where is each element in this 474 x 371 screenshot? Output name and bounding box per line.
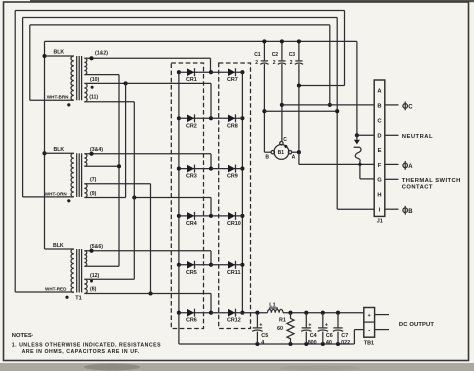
label NEUTRAL [402, 134, 433, 140]
label BLK (section 3) [53, 243, 64, 249]
label BLK (section 2) [54, 147, 65, 153]
transformer T1 secondary winding 3 [84, 154, 86, 167]
svg-text:BLK: BLK [54, 147, 65, 153]
svg-text:(9): (9) [90, 191, 97, 197]
connector J1 [374, 80, 385, 216]
capacitor C7 [333, 313, 343, 344]
svg-text:THERMAL SWITCH: THERMAL SWITCH [402, 178, 461, 184]
label CR1 [186, 77, 197, 83]
wire J1.I stub [385, 208, 399, 210]
diode CR2 [179, 114, 213, 122]
terminal block TB1 [364, 308, 375, 338]
wire C2 to B1.C and to J1 pin B (phase C) [280, 64, 374, 142]
svg-text:A: A [408, 164, 413, 170]
label CR2 [186, 123, 197, 129]
label R1 value 60 [277, 318, 286, 332]
wire BLK lead T1-B [45, 152, 74, 154]
wire neutral BLK bus: down left of primaries, across top at y41, down to J1 pin D row [42, 41, 359, 249]
label C5 value 4 [261, 333, 268, 346]
svg-text:BLK: BLK [54, 50, 65, 56]
wire C1 to B1.B and to phase-B bus [262, 64, 339, 152]
svg-text:WHT-ORN: WHT-ORN [45, 191, 68, 196]
transformer T1 section 1 primary winding [71, 56, 74, 100]
diode CR4 [179, 212, 213, 220]
svg-text:40: 40 [326, 340, 332, 346]
svg-text:CR10: CR10 [227, 221, 241, 227]
notes heading [12, 333, 34, 339]
svg-text:CR7: CR7 [227, 77, 238, 83]
svg-text:(8): (8) [90, 286, 97, 292]
label B1 terminal B [265, 155, 269, 161]
label CR9 [227, 174, 238, 180]
wire B1.A to J1 pin F (phase A) [292, 150, 374, 164]
diode CR1 [179, 68, 213, 76]
wire tap (11) [84, 101, 134, 103]
transformer T1 section 2 primary winding [71, 153, 74, 197]
diode CR3 [179, 165, 213, 173]
svg-text:C4: C4 [310, 333, 317, 339]
wire phase-B bus: WHT-ORN up left side, across top, down to J1 pin I [23, 18, 375, 210]
svg-text:.022: .022 [340, 340, 351, 346]
label CR6 [186, 318, 197, 324]
svg-text:(7): (7) [90, 177, 97, 183]
wire WHT-BRN primary lead [30, 99, 74, 101]
transformer T1 secondary winding 6 [84, 279, 87, 293]
wire J1.B stub [385, 104, 399, 106]
label CR8 [227, 123, 238, 129]
svg-text:F: F [378, 163, 382, 169]
wire tap T1-B mid [84, 165, 119, 167]
label C1 value 2 [254, 52, 261, 66]
svg-text:R1: R1 [279, 318, 286, 324]
svg-text:2: 2 [273, 60, 276, 66]
wire BLK lead T1-A [45, 55, 74, 57]
rectifier module dashed box CR7-CR12 [219, 63, 251, 329]
wire CR4 feed row [132, 195, 211, 215]
note 1 line 1 [12, 342, 161, 348]
svg-text:TB1: TB1 [364, 340, 374, 346]
label CR7 [227, 77, 238, 83]
svg-text:-: - [368, 328, 370, 334]
svg-text:(1&2): (1&2) [95, 50, 108, 56]
wire tap T1-C mid [84, 265, 119, 267]
wire neutral to J1 pin D [357, 134, 374, 136]
label phase C [403, 102, 413, 111]
resistor R1 [287, 313, 294, 344]
svg-text:NOTES·: NOTES· [12, 333, 34, 339]
diode CR11 [211, 261, 242, 269]
label C3 value 2 [289, 52, 296, 66]
label C7 value .022 [340, 333, 351, 346]
svg-text:(10): (10) [90, 77, 99, 83]
transformer T1 secondary winding 4 [84, 184, 87, 198]
wire tap 11-upper to CR2 row [84, 81, 211, 118]
transformer T1 secondary winding 5 [84, 251, 86, 266]
label CR5 [186, 270, 197, 276]
wire tap (5&6) to CR5 row [84, 249, 211, 265]
label (10) [90, 77, 99, 83]
label WHT-BRN [47, 94, 69, 99]
svg-text:CR12: CR12 [227, 318, 241, 324]
wire DC output minus stub [375, 329, 389, 331]
label J1 [377, 219, 383, 225]
svg-text:2: 2 [290, 60, 293, 66]
blower motor B1 [271, 142, 292, 160]
svg-text:CR4: CR4 [186, 221, 197, 227]
svg-text:B: B [265, 155, 269, 161]
svg-text:E: E [378, 148, 382, 154]
diode CR12 [211, 309, 242, 317]
wire thermal to J1 pin G [358, 163, 374, 179]
svg-text:C3: C3 [289, 52, 296, 58]
capacitor C5 [252, 313, 263, 344]
negative bus (diode anodes) [177, 70, 181, 344]
svg-text:(12): (12) [90, 273, 99, 279]
svg-text:800: 800 [308, 340, 317, 346]
svg-text:CR2: CR2 [186, 123, 197, 129]
label (9) [90, 191, 97, 197]
wire series link 11-upper to (9) [125, 83, 127, 197]
svg-text:T1: T1 [75, 295, 82, 301]
svg-text:4: 4 [261, 340, 264, 346]
label BLK (section 1) [54, 50, 65, 56]
svg-text:H: H [377, 193, 381, 199]
label (3&4) [90, 147, 103, 153]
wire tap (7) [84, 183, 150, 185]
diode CR8 [211, 114, 242, 122]
svg-text:NEUTRAL: NEUTRAL [402, 134, 433, 140]
wire phase-A bus: WHT-RED up left side, across top, down right to C3 junction [15, 11, 344, 293]
label TB1 [364, 340, 374, 346]
thermal element [354, 147, 361, 164]
wire series link (10) to mid taps [117, 75, 121, 267]
terminal dot below WHT-BRN [67, 103, 70, 106]
wire phase-C bus: WHT-BRN up left side, across top, down to J1 pin B row [30, 25, 332, 107]
transformer T1 secondary winding 2 [84, 83, 87, 101]
svg-text:C: C [408, 105, 413, 111]
svg-text:CR8: CR8 [227, 123, 238, 129]
label (8) [90, 286, 97, 292]
transformer T1 secondary winding 1 [84, 58, 86, 74]
rectifier module dashed box CR1-CR6 [171, 63, 203, 329]
capacitor C3 [295, 39, 303, 64]
label C4 value 800 [308, 333, 317, 346]
wire neutral tap arrow [354, 135, 360, 144]
label CR11 [227, 270, 240, 276]
svg-text:BLK: BLK [53, 243, 64, 249]
wire WHT-RED primary lead [15, 291, 74, 293]
label CR4 [186, 221, 197, 227]
svg-text:WHT-RED: WHT-RED [45, 287, 67, 292]
label phase B [403, 206, 413, 215]
label (5&6) [90, 244, 103, 250]
label C6 value 40 [326, 333, 333, 346]
svg-text:D: D [377, 133, 381, 139]
wire series link (7) to (8) [150, 184, 152, 294]
label B1 terminal A [292, 155, 296, 161]
svg-text:WHT-BRN: WHT-BRN [47, 94, 69, 99]
label L1 [269, 303, 278, 309]
transformer T1 section 3 primary winding [71, 249, 74, 293]
transformer T1 section 1 core [77, 56, 82, 100]
label T1 [75, 295, 82, 301]
terminal dot below WHT-ORN [67, 199, 70, 202]
svg-text:B1: B1 [278, 150, 285, 156]
capacitor C2 [278, 39, 286, 64]
svg-text:C1: C1 [254, 52, 261, 58]
svg-text:ARE IN OHMS, CAPACITORS ARE IN: ARE IN OHMS, CAPACITORS ARE IN UF. [22, 349, 140, 355]
transformer T1 section 2 core [77, 153, 82, 197]
diode CR5 [179, 261, 213, 269]
capacitor C6 [318, 313, 329, 344]
label (11) [89, 95, 98, 101]
wire BLK lead T1-C [45, 248, 74, 250]
svg-text:A: A [292, 155, 296, 161]
wire DC output plus stub [375, 314, 389, 316]
terminal dot below WHT-RED [65, 296, 68, 299]
label WHT-RED [45, 287, 67, 292]
svg-text:CR5: CR5 [186, 270, 197, 276]
wire tap (8) to CR6 row [84, 291, 211, 312]
svg-text:CR9: CR9 [227, 174, 238, 180]
svg-text:C7: C7 [341, 333, 348, 339]
svg-text:C: C [283, 137, 287, 143]
label (12) [90, 273, 99, 279]
wire J1.D stub [385, 134, 399, 136]
transformer T1 section 3 core [77, 249, 82, 293]
svg-text:CR11: CR11 [227, 270, 240, 276]
label THERMAL SWITCH CONTACT [402, 178, 461, 190]
svg-text:CR6: CR6 [186, 318, 197, 324]
svg-text:CR3: CR3 [186, 174, 197, 180]
wire series link (11) to (12) [133, 102, 135, 279]
svg-text:1. UNLESS OTHERWISE INDICATED,: 1. UNLESS OTHERWISE INDICATED, RESISTANC… [12, 342, 161, 348]
wire J1.G stub [385, 178, 399, 180]
svg-text:C6: C6 [326, 333, 333, 339]
capacitor C4 [301, 313, 312, 344]
label DC OUTPUT [399, 322, 434, 328]
diode CR6 [179, 309, 213, 317]
diode CR9 [211, 165, 242, 173]
label (1&2) [95, 50, 108, 56]
svg-text:CONTACT: CONTACT [402, 185, 433, 191]
svg-text:+: + [368, 313, 371, 319]
label CR3 [186, 174, 197, 180]
wire tap (9) [84, 197, 125, 199]
svg-text:CR1: CR1 [186, 77, 197, 83]
label C2 value 2 [272, 52, 279, 66]
diode CR10 [211, 212, 242, 220]
svg-text:C2: C2 [272, 52, 279, 58]
capacitor C1 [260, 39, 268, 64]
wire tap (1&2) to CR1 row [84, 56, 210, 72]
positive output rail [242, 311, 363, 315]
svg-text:(3&4): (3&4) [90, 147, 103, 153]
svg-text:B: B [377, 103, 381, 109]
label phase A [403, 161, 413, 170]
svg-text:60: 60 [277, 326, 283, 332]
svg-text:DC OUTPUT: DC OUTPUT [399, 322, 434, 328]
label (7) [90, 177, 97, 183]
wire tap (3&4) to CR3 row [84, 152, 211, 169]
diode CR7 [211, 68, 242, 76]
label CR12 [227, 318, 241, 324]
inductor L1 [268, 309, 283, 312]
svg-text:C5: C5 [261, 333, 268, 339]
label CR10 [227, 221, 241, 227]
wire tap (10) [84, 74, 119, 76]
wire C3 to B1.A junction [297, 64, 301, 152]
label B1 terminal C [283, 137, 287, 143]
svg-text:J1: J1 [377, 219, 383, 225]
wire J1.F stub [385, 163, 399, 165]
negative output rail [179, 330, 364, 346]
svg-text:2: 2 [255, 60, 258, 66]
svg-text:B: B [408, 209, 413, 215]
svg-text:(5&6): (5&6) [90, 244, 103, 250]
note 1 line 2 [22, 349, 140, 355]
positive bus (diode cathodes) [240, 70, 244, 315]
wire WHT-ORN primary lead [23, 196, 74, 198]
svg-text:G: G [377, 178, 382, 184]
svg-text:(11): (11) [89, 95, 98, 101]
wire tap (12) [84, 279, 134, 282]
label WHT-ORN [45, 191, 68, 196]
